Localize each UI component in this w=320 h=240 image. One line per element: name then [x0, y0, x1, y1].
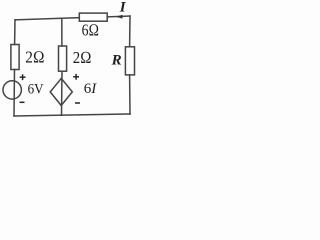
wire left box to bottom — [13, 70, 16, 117]
wire middle box to bottom — [61, 71, 64, 115]
wire middle branch top — [61, 18, 63, 46]
resistor R box — [125, 47, 134, 75]
wire 6ohm box to top-right corner — [107, 15, 130, 18]
svg-text:2Ω: 2Ω — [73, 48, 92, 67]
resistor 2ohm middle box — [59, 46, 67, 71]
wire bottom — [14, 114, 130, 116]
svg-text:2Ω: 2Ω — [25, 47, 44, 66]
svg-text:6I: 6I — [84, 81, 98, 97]
current arrow I head — [116, 15, 123, 19]
wire right side down — [129, 16, 131, 47]
resistor 6ohm box — [79, 13, 107, 21]
svg-text:6Ω: 6Ω — [82, 21, 100, 40]
minus sign of 6V source — [20, 101, 25, 103]
wire left side down — [14, 20, 16, 45]
svg-text:I: I — [119, 0, 127, 16]
wire top-left to 6ohm box — [15, 18, 79, 20]
wire right box to bottom — [129, 75, 131, 114]
svg-text:R: R — [111, 53, 122, 69]
plus sign of 6I source — [73, 76, 79, 78]
resistor 2ohm left box — [11, 45, 19, 70]
plus sign of 6V source — [20, 76, 26, 78]
voltage source 6V circle — [3, 81, 21, 99]
dependent source 6I diamond — [50, 78, 72, 105]
svg-text:6V: 6V — [28, 82, 44, 98]
minus sign of 6I source — [75, 102, 80, 104]
